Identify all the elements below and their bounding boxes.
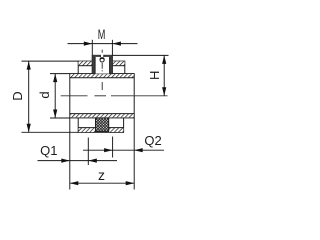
d extension line bottom <box>50 117 70 119</box>
pipe bottom wall hatch <box>70 114 133 118</box>
H top ext <box>112 54 168 56</box>
D arrowhead top <box>27 61 31 70</box>
Q2 arrowhead left <box>104 148 113 152</box>
bottom boss inner line right <box>109 127 124 129</box>
M arrowhead right <box>112 42 121 46</box>
pipe axis centerline dash 2 <box>95 95 107 97</box>
M extension line left <box>91 40 93 55</box>
pipe bottom wall inner line <box>70 113 134 115</box>
Q2 arrowhead right <box>134 148 143 152</box>
top boss wall hatch left <box>78 61 92 65</box>
d dim line <box>54 74 56 118</box>
plug <box>96 118 109 132</box>
svg-text:D: D <box>10 91 25 100</box>
vent hole gap in stub top <box>100 55 103 58</box>
svg-text:Q1: Q1 <box>40 143 57 158</box>
svg-text:Q2: Q2 <box>144 133 161 148</box>
z dim line <box>70 182 134 184</box>
centerlines <box>61 50 168 96</box>
svg-text:H: H <box>147 71 162 80</box>
D extension line bottom <box>22 131 79 133</box>
vertical centerline dash in bore <box>101 82 103 90</box>
stub cavity wall line left <box>94 57 96 74</box>
ball top arc <box>100 58 104 59</box>
stub cavity <box>95 57 110 74</box>
Q2 dimension line <box>83 149 164 151</box>
stub cavity wall line right <box>109 57 111 74</box>
top boss outline <box>78 61 125 74</box>
stub left wall hatch <box>92 56 95 74</box>
D extension line top <box>22 60 79 62</box>
D dim line <box>28 61 30 132</box>
bottom boss inner line left <box>78 127 95 129</box>
d arrowhead top <box>53 74 57 83</box>
M arrowhead left <box>84 42 93 46</box>
z arrowhead left <box>70 181 79 185</box>
bottom boss wall hatch <box>79 128 124 132</box>
z extension line left <box>69 118 71 190</box>
Q1 arrowhead left <box>61 159 70 163</box>
vertical centerline dash in cavity <box>101 63 103 69</box>
Q1 arrowhead right <box>88 159 97 163</box>
d extension line top <box>50 73 70 75</box>
stub outline <box>92 55 112 73</box>
stub top wall hatch <box>92 55 112 57</box>
pipe axis centerline dash 1 <box>61 95 88 97</box>
z extension line right <box>133 118 135 190</box>
vent hole edge right <box>103 55 105 57</box>
top boss inner line right <box>112 65 124 67</box>
vertical centerline dash above stub <box>101 50 103 53</box>
vent hole edge left <box>99 55 101 57</box>
M extension line right <box>111 40 113 55</box>
d arrowhead bottom <box>53 110 57 119</box>
H arrowhead top <box>162 55 166 64</box>
bottom boss outline <box>78 118 123 132</box>
top boss inner line left <box>78 65 92 67</box>
M dimension line <box>68 43 138 45</box>
ball <box>100 58 104 62</box>
svg-text:z: z <box>98 167 105 183</box>
pipe axis centerline dash 3 (merges with H bottom ext) <box>111 95 168 97</box>
H arrowhead bottom <box>162 87 166 96</box>
pipe top wall hatch <box>70 74 133 78</box>
Q1 dimension line <box>38 160 118 162</box>
stub right wall hatch <box>110 56 113 74</box>
vertical centerline dot <box>101 70 103 71</box>
z arrowhead right <box>126 181 135 185</box>
svg-text:d: d <box>37 91 52 98</box>
Q1 ext line <box>87 138 89 166</box>
top boss wall hatch right <box>112 61 124 65</box>
H dim line <box>163 55 165 95</box>
Q2 ext line <box>112 137 114 158</box>
pipe top wall inner line <box>70 77 134 79</box>
svg-text:M: M <box>98 27 106 42</box>
dimensions <box>22 40 169 190</box>
D arrowhead bottom <box>27 124 31 133</box>
pipe body outline <box>70 74 134 118</box>
